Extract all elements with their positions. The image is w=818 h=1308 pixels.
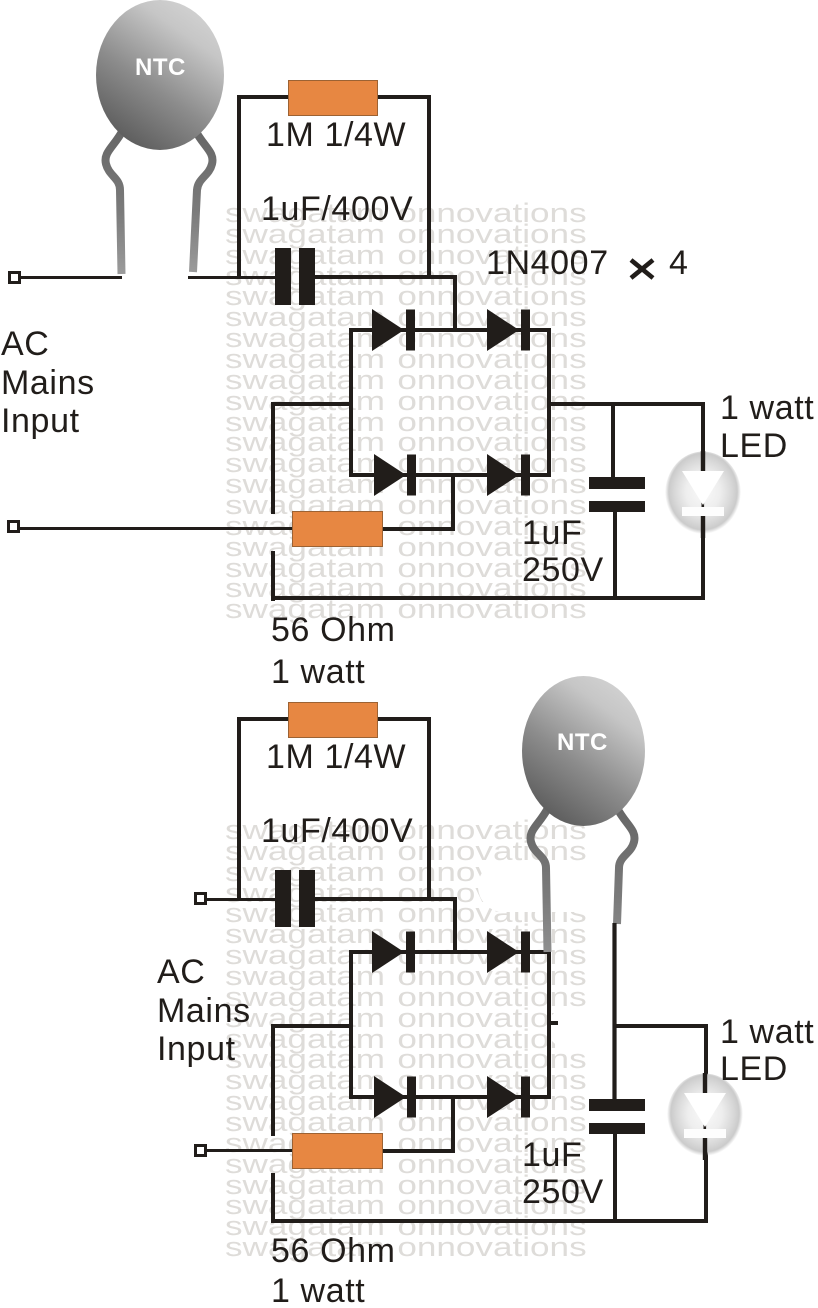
label 56 Ohm c2 [271, 1234, 396, 1268]
label 250V c1 [522, 553, 604, 587]
label 1 watt c2 [271, 1274, 365, 1308]
wire 56 ohm to bridge1 bottom [383, 527, 455, 531]
terminal AC input 2 (bottom) [194, 1144, 207, 1157]
label 1N4007 [486, 246, 609, 280]
wire AC input to capacitor C3 [207, 898, 275, 901]
label 1 watt LED2 [720, 1015, 814, 1049]
label 1uF/400V c2 [261, 814, 413, 848]
label 250V c2 [522, 1175, 604, 1209]
wire 56 ohm to bridge2 bottom [383, 1149, 455, 1153]
wire left vertical upper c2 [271, 1024, 275, 1136]
terminal AC input 2 (top) [194, 892, 207, 905]
diode D4 1N4007 [487, 454, 530, 496]
wire C1 to bridge step [313, 275, 457, 279]
wire C3 to bridge step [313, 897, 457, 901]
resistor R4 56 Ohm 1 watt [292, 1133, 383, 1169]
wire NTC2 right lead down to C4 [612, 923, 616, 1101]
diode D3 1N4007 [374, 454, 416, 496]
thermistor NTC1 body [96, 0, 224, 150]
terminal AC input 1 (top) [8, 271, 21, 284]
wire left vertical upper c1 [271, 402, 275, 514]
terminal AC input 1 (bottom) [7, 520, 20, 533]
label multiply x4 [629, 258, 655, 280]
wire bridge1 left input [271, 402, 351, 406]
bridge rectifier 1 outline [349, 328, 551, 477]
diode D2 1N4007 [487, 309, 530, 351]
wire C2 to bottom rail c1 [613, 512, 617, 600]
capacitor C1 1uF/400V plates [275, 248, 291, 305]
wire bridge2 output stub [551, 1021, 558, 1025]
wire step down to bridge1 top [453, 275, 457, 332]
LED2 1 watt [667, 1073, 743, 1160]
label AC Mains Input c2 [157, 953, 251, 1069]
wire bottom rail c2 [271, 1219, 708, 1223]
wire AC input 2 to 56 ohm [18, 527, 292, 530]
white backdrop of NTC2 graphic [478, 861, 599, 912]
wire down to C2 cap [611, 402, 615, 479]
wire left vertical lower c2 [271, 1173, 275, 1223]
wire loop1 left vertical [237, 95, 241, 279]
watermark text block [0, 0, 818, 1]
wire up to bridge2 bottom [451, 1097, 455, 1153]
wire left vertical lower c1 [271, 551, 275, 601]
resistor R1 1M 1/4W [288, 80, 378, 116]
label LED2 text [720, 1052, 788, 1086]
capacitor C4 1uF/250V plates [589, 1099, 645, 1111]
label NTC1 [135, 56, 186, 80]
label 1uF/400V c1 [261, 192, 413, 226]
wire C4 to bottom rail c2 [613, 1134, 617, 1222]
wire bridge2 left input [271, 1024, 351, 1028]
wire bottom rail c1 [271, 596, 705, 600]
label NTC2 [557, 731, 608, 755]
diode D5 1N4007 [372, 931, 415, 973]
NTC1 right lead [193, 130, 213, 272]
wire loop2 top [237, 717, 431, 721]
label 1uF c2 [522, 1138, 582, 1172]
label 1M 1/4W c2 [266, 740, 406, 774]
wire loop1 top [237, 95, 431, 99]
label LED1 text [720, 429, 788, 463]
wire LED2 branch vertical [704, 1024, 708, 1220]
wire loop2 left vertical [237, 717, 241, 901]
label 1uF c1 [522, 516, 582, 550]
diode D8 1N4007 [487, 1076, 530, 1118]
capacitor C3 1uF/400V plates [275, 870, 291, 927]
diode D6 1N4007 [487, 931, 530, 973]
label 1M 1/4W c1 [266, 118, 406, 152]
wire loop1 right vertical [427, 95, 431, 279]
resistor R2 56 Ohm 1 watt [292, 511, 383, 547]
LED1 1 watt [665, 451, 741, 538]
NTC1 left lead [105, 130, 123, 274]
NTC2 right lead [617, 808, 635, 924]
wire AC input 1 to NTC left lead [18, 276, 122, 279]
wire loop2 right vertical [427, 717, 431, 901]
NTC2 left lead [530, 808, 548, 952]
diode D1 1N4007 [372, 309, 415, 351]
capacitor C2 1uF/250V plates [589, 477, 645, 489]
wire NTC right lead to capacitor C1 [188, 276, 277, 279]
bridge rectifier 2 outline [349, 950, 551, 1099]
label AC Mains Input c1 [1, 325, 95, 441]
wire output top rail c2 [613, 1024, 708, 1028]
label 1 watt LED1 [720, 391, 814, 425]
diode D7 1N4007 [374, 1076, 416, 1118]
label 1 watt c1 [271, 655, 365, 689]
wire AC input to 56 ohm c2 [207, 1149, 292, 1152]
label 56 Ohm c1 [271, 613, 396, 647]
wire up to bridge1 bottom [451, 475, 455, 531]
wire bridge1 output to LED [549, 402, 705, 406]
wire step down to bridge2 top [453, 897, 457, 954]
wire LED1 branch vertical [701, 402, 705, 598]
label 4 qty [669, 246, 689, 280]
thermistor NTC2 body [522, 676, 645, 826]
resistor R3 1M 1/4W [288, 702, 378, 738]
